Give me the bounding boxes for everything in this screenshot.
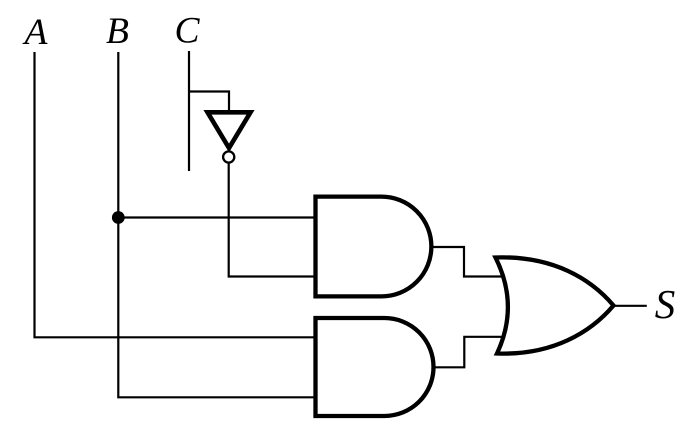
svg-text:A: A (22, 12, 49, 53)
svg-text:S: S (655, 281, 676, 327)
svg-text:C: C (174, 11, 200, 52)
svg-text:B: B (106, 11, 129, 52)
